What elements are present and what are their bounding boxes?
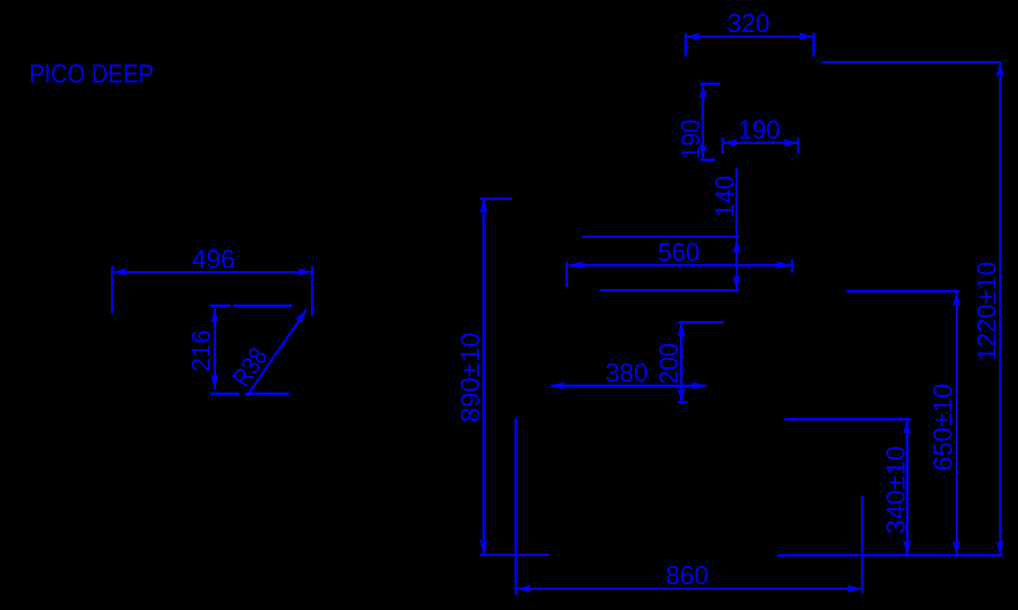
svg-text:190: 190: [738, 115, 780, 145]
wire 496 dim line: [112, 271, 312, 274]
wire 216 top reference line a: [210, 304, 231, 307]
wire top right long line: [822, 61, 1001, 64]
wire 190h dim line: [723, 142, 798, 145]
wire 216 bottom reference line a: [211, 392, 239, 395]
arrow 860 left: [517, 585, 532, 593]
wire 340 top reference line: [784, 418, 910, 421]
arrow 380 right: [691, 382, 706, 390]
wire 560 right extension: [791, 259, 794, 273]
wire bottom left base line: [480, 554, 550, 557]
wire 1220 dim line: [999, 62, 1002, 555]
wire right shelf reference line: [847, 290, 960, 293]
wire bottom 560 reference line: [599, 289, 739, 292]
svg-text:560: 560: [658, 237, 700, 267]
arrow 890 up: [480, 199, 488, 214]
arrow 320 left: [686, 33, 701, 41]
svg-text:650±10: 650±10: [928, 384, 958, 472]
arrow 200 up: [677, 322, 685, 337]
wire 650 dim line: [955, 292, 958, 556]
arrow 1220 up: [996, 62, 1004, 77]
svg-text:380: 380: [605, 357, 648, 387]
arrow 890 down: [480, 540, 488, 555]
svg-text:140: 140: [710, 176, 740, 218]
arrow 340 down: [903, 540, 911, 555]
wire 200 top reference line: [678, 321, 724, 324]
wire bottom right base line: [778, 554, 1003, 557]
wire 190v bottom tick: [701, 158, 716, 161]
arrow 190v down: [699, 144, 707, 159]
arrow 860 right: [847, 585, 862, 593]
svg-text:1220±10: 1220±10: [971, 262, 1001, 362]
arrow 650 up: [953, 292, 961, 307]
svg-text:PICO DEEP: PICO DEEP: [29, 59, 153, 89]
arrow 1220 down: [996, 540, 1004, 555]
arrow 140 down: [733, 275, 741, 290]
svg-text:200: 200: [654, 343, 684, 384]
arrow 496 left: [112, 268, 127, 276]
wire 496 left extension: [111, 266, 114, 314]
arrow 200 down: [677, 388, 685, 403]
wire 860 dim line: [517, 587, 862, 590]
wire 320 right extension: [812, 33, 815, 57]
wire 200 dim line: [680, 322, 683, 403]
arrow 216 up: [211, 308, 219, 323]
wire 890 top tick: [480, 197, 512, 200]
arrow 560 left: [569, 261, 584, 269]
wire 890 dim line: [482, 199, 485, 555]
wire top 560 reference line: [582, 235, 740, 238]
wire 190v dim line: [702, 84, 705, 159]
wire 320 dim line: [686, 35, 814, 38]
wire 560 dim line: [569, 264, 791, 267]
wire R38 leader line: [248, 309, 307, 395]
wire 200 bottom tick: [678, 401, 687, 404]
arrow 190v up: [699, 84, 707, 99]
wire 496 right extension: [311, 266, 314, 316]
wire 190h right extension: [797, 138, 800, 154]
wire 190v top tick: [700, 82, 720, 85]
arrow 340 up: [903, 419, 911, 434]
wire 190h left extension: [721, 138, 724, 154]
arrow 216 down: [211, 374, 219, 389]
svg-text:320: 320: [727, 8, 769, 38]
arrow R38: [295, 307, 310, 324]
arrow 190h right: [783, 139, 798, 147]
svg-text:890±10: 890±10: [455, 332, 485, 422]
wire 216 dim line: [213, 308, 216, 389]
arrow 496 right: [297, 268, 312, 276]
wire 560 left extension: [566, 262, 569, 287]
svg-text:860: 860: [666, 560, 709, 590]
arrow 320 right: [799, 33, 814, 41]
wire 320 left extension: [684, 33, 687, 57]
wire 216 top reference line b: [234, 304, 293, 307]
wire 140 dim line: [736, 168, 739, 290]
arrow 560 right: [776, 261, 791, 269]
wire 860 left extension: [514, 418, 517, 595]
wire 216 bottom reference line b: [245, 392, 289, 395]
arrow 140 up: [733, 239, 741, 254]
wire 860 right extension: [861, 495, 864, 593]
svg-text:216: 216: [186, 330, 216, 372]
arrow 650 down: [953, 540, 961, 555]
svg-text:496: 496: [192, 244, 235, 274]
arrow 190h left: [723, 139, 738, 147]
arrow 380 left: [550, 382, 565, 390]
wire 340 dim line: [906, 419, 909, 555]
wire 380 dim line: [550, 384, 706, 387]
svg-text:340±10: 340±10: [880, 446, 910, 534]
svg-text:190: 190: [675, 119, 705, 159]
